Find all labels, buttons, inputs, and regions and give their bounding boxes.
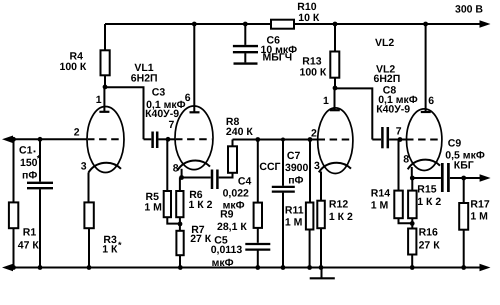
svg-text:1 М: 1 М <box>144 202 162 214</box>
node: VL2 grid pin 7 <box>398 137 403 142</box>
node: bus C5 <box>255 265 260 270</box>
svg-text:ССГ: ССГ <box>259 161 280 173</box>
svg-text:1 М: 1 М <box>470 210 488 222</box>
capacitor C8 <box>372 84 417 148</box>
triode VL2.2 <box>396 24 442 171</box>
resistor R12 <box>317 172 353 268</box>
capacitor C3 <box>144 86 186 148</box>
plate (anode) lead <box>193 24 195 112</box>
node: bus C1 <box>38 265 43 270</box>
svg-text:1 К: 1 К <box>102 244 118 256</box>
svg-text:3900: 3900 <box>285 162 309 174</box>
node: R11 branch <box>308 137 313 142</box>
svg-text:С1: С1 <box>19 145 33 157</box>
node: rail junction C6 <box>243 22 248 27</box>
triode VL1.1 <box>74 87 124 173</box>
svg-text:пФ: пФ <box>22 170 37 182</box>
node: bus R11 <box>307 265 312 270</box>
capacitor C1 <box>19 139 53 267</box>
tube label VL2 <box>374 64 401 86</box>
svg-text:С9: С9 <box>448 137 462 149</box>
svg-text:6: 6 <box>185 92 191 104</box>
grid (dashed) <box>319 139 353 141</box>
node: rail junction R13 <box>333 22 338 27</box>
triode VL2.1 <box>311 88 353 174</box>
node: input / R1 <box>11 137 16 142</box>
resistor R10 <box>271 1 320 29</box>
node: cathode pin 8 junction <box>179 175 184 180</box>
node: R4 / VL1 plate junction <box>103 85 108 90</box>
capacitor C7 <box>259 140 308 268</box>
svg-text:1: 1 <box>323 95 329 107</box>
svg-text:R9: R9 <box>220 209 234 221</box>
op-amp label VL1 <box>131 62 158 85</box>
resistor R9 <box>217 140 262 243</box>
svg-text:47 К: 47 К <box>18 240 40 252</box>
svg-text:0,022: 0,022 <box>223 187 249 199</box>
wire: VL2.2 cathode lead <box>411 167 413 178</box>
ground bar under C6 <box>234 62 258 64</box>
cathode <box>408 160 440 170</box>
envelope <box>407 109 442 171</box>
svg-text:7: 7 <box>169 119 175 131</box>
cathode <box>319 163 351 173</box>
resistor R7 <box>176 224 211 268</box>
svg-text:3: 3 <box>81 161 87 173</box>
plate (anode) lead <box>334 88 336 110</box>
svg-text:1 М: 1 М <box>285 217 303 229</box>
svg-text:R17: R17 <box>470 198 489 210</box>
svg-text:R12: R12 <box>329 198 348 210</box>
node: R14/R15/R16 junction <box>410 221 415 226</box>
wire: VL1 plate to C3 <box>105 87 144 139</box>
wire: VL1.2 cathode lead <box>181 169 183 178</box>
svg-text:240 К: 240 К <box>226 126 253 138</box>
resistor R6 <box>176 178 212 231</box>
resistor R1 <box>9 139 39 267</box>
node: R9 branch <box>255 137 260 142</box>
resistor R3 <box>84 173 122 268</box>
svg-text:10 К: 10 К <box>298 12 320 24</box>
grid (dashed) <box>176 138 212 140</box>
svg-text:27 К: 27 К <box>190 233 212 245</box>
resistor R14 <box>371 140 412 224</box>
svg-text:VL2: VL2 <box>375 37 394 49</box>
wire: cathode 8 to C4 <box>182 177 211 179</box>
node: bus R7 <box>178 265 183 270</box>
svg-text:1 К 2: 1 К 2 <box>189 199 213 211</box>
wire: input <box>2 136 87 144</box>
cathode <box>178 161 211 171</box>
svg-text:МБГЧ: МБГЧ <box>263 52 293 64</box>
resistor R15 <box>408 178 441 229</box>
resistor R5 <box>144 139 180 223</box>
node: R5/R6/R7 junction <box>178 222 183 227</box>
svg-text:150: 150 <box>20 157 38 169</box>
svg-text:R11: R11 <box>285 205 304 217</box>
svg-text:К40У-9: К40У-9 <box>376 103 410 115</box>
node: rail junction VL2 plate <box>423 22 428 27</box>
svg-text:1 М: 1 М <box>371 200 389 212</box>
svg-text:R16: R16 <box>419 226 438 238</box>
ground <box>310 268 335 279</box>
svg-text:8: 8 <box>403 154 409 166</box>
net: 300 V arrow <box>455 4 491 28</box>
resistor R4 <box>60 24 110 87</box>
wire: +300V top rail <box>105 23 482 25</box>
capacitor C5 <box>211 234 271 269</box>
resistor R8 <box>226 116 253 173</box>
resistor R13 <box>300 24 340 88</box>
envelope <box>87 107 124 173</box>
node: bus R1 <box>11 265 16 270</box>
svg-text:100 К: 100 К <box>60 61 87 73</box>
svg-text:R15: R15 <box>417 184 436 196</box>
node: rail junction VL1 plate <box>192 22 197 27</box>
svg-text:28,1 К: 28,1 К <box>217 221 247 233</box>
svg-text:3: 3 <box>314 160 320 172</box>
wire: to VL2 grid 2 <box>310 139 318 141</box>
resistor R11 <box>285 140 314 268</box>
node: input / C1 <box>38 137 43 142</box>
grid (dashed) <box>407 139 441 141</box>
envelope <box>318 108 353 174</box>
tube label VL2 upper <box>375 37 394 49</box>
node: bus R12 <box>319 265 324 270</box>
node: cathode pin 8 junction <box>410 176 415 181</box>
node: VL1 grid pin 7 <box>166 137 171 142</box>
wire: output arrow <box>464 174 491 182</box>
node: bus C7 <box>281 265 286 270</box>
svg-text:6Н2П: 6Н2П <box>131 73 158 85</box>
wire: cathode 8 to C9 <box>412 177 441 179</box>
resistor R16 <box>408 226 440 267</box>
svg-text:7: 7 <box>396 126 402 138</box>
svg-text:R1: R1 <box>23 227 37 239</box>
wire: feedback node row <box>233 139 318 141</box>
wire: to grid 7 <box>400 139 407 141</box>
svg-text:пФ: пФ <box>288 174 303 186</box>
svg-text:6Н2П: 6Н2П <box>374 73 401 85</box>
svg-text:С3: С3 <box>152 86 166 98</box>
cathode <box>89 163 122 173</box>
svg-text:*: * <box>118 240 122 250</box>
node: bus R3 <box>87 265 92 270</box>
svg-text:R14: R14 <box>371 188 390 200</box>
svg-text:27 К: 27 К <box>419 239 441 251</box>
node: bus R17 <box>461 265 466 270</box>
grid (dashed) <box>88 138 124 140</box>
svg-text:2: 2 <box>311 127 317 139</box>
svg-text:0,0113: 0,0113 <box>211 244 243 256</box>
svg-text:1 К 2: 1 К 2 <box>329 211 353 223</box>
svg-text:8: 8 <box>173 162 179 174</box>
svg-text:100 К: 100 К <box>300 67 327 79</box>
wire: ground bus <box>2 264 491 272</box>
envelope <box>175 106 213 170</box>
svg-text:С7: С7 <box>287 150 301 162</box>
capacitor C6 <box>233 24 297 64</box>
svg-text:С4: С4 <box>238 176 252 188</box>
node: bus R16 <box>410 265 415 270</box>
svg-text:6: 6 <box>428 95 434 107</box>
svg-text:300 В: 300 В <box>455 4 483 16</box>
svg-text:1: 1 <box>96 94 102 106</box>
svg-text:2: 2 <box>74 127 80 139</box>
node: R13 / VL2 plate junction <box>333 86 338 91</box>
svg-text:КБГ: КБГ <box>454 160 474 172</box>
wire: to grid 7 <box>168 138 175 140</box>
svg-text:*: * <box>37 154 41 164</box>
plate (anode) lead <box>425 24 427 112</box>
wire: VL2.1 plate to C8 <box>335 88 372 139</box>
svg-text:1 К 2: 1 К 2 <box>417 196 441 208</box>
triode VL1.2 <box>169 24 214 174</box>
resistor R17 <box>459 178 490 268</box>
capacitor C9 <box>442 137 485 192</box>
node: output / R17 <box>461 176 466 181</box>
node: C7 branch <box>281 138 285 142</box>
capacitor C4 <box>212 170 251 212</box>
plate (anode) lead <box>103 87 105 112</box>
